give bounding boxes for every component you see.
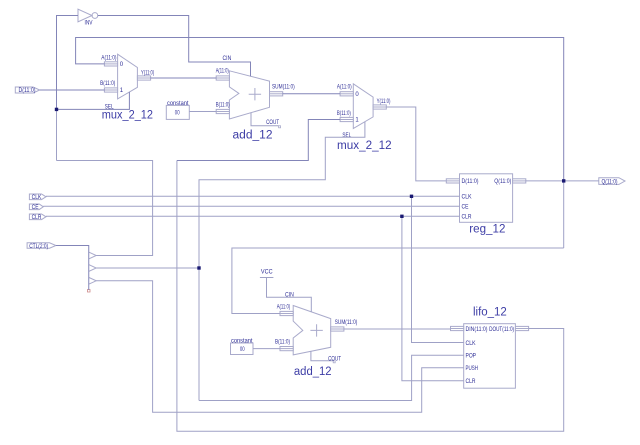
lifo U6 pin CLK — [466, 341, 476, 347]
lifo U6 pin DOUT(11:0) — [489, 326, 529, 333]
register U4 pin CLR — [462, 215, 473, 221]
wire Q feedback rail — [76, 38, 564, 249]
wire lifo DOUT feedback to mux U3 B — [177, 120, 564, 432]
svg-text:lifo_12: lifo_12 — [473, 306, 507, 318]
svg-text:PUSH: PUSH — [466, 366, 479, 372]
svg-text:A(11:0): A(11:0) — [101, 56, 116, 62]
register U4 pin Q(11:0) — [494, 179, 526, 185]
svg-text:CIN: CIN — [223, 56, 232, 62]
register U4 pin CLK — [462, 195, 472, 201]
adder U2 pin A(11:0) — [216, 68, 230, 80]
input port CLR — [29, 214, 46, 221]
svg-text:D(11:0): D(11:0) — [19, 88, 36, 94]
register U4 pin D(11:0) — [446, 179, 478, 185]
wire CLK rail — [46, 195, 460, 197]
lifo U6 pin DIN(11:0) — [451, 326, 488, 333]
wire constant C2 to adder U5 B — [253, 348, 280, 350]
wire INV input — [57, 16, 79, 161]
wire VCC to CIN — [267, 278, 312, 312]
wire adder U5 SUM to lifo DIN — [344, 328, 451, 330]
wire CLR rail — [46, 215, 460, 217]
mux U3 pin Y(11:0) — [373, 99, 390, 109]
input port D(11:0) — [15, 87, 39, 94]
svg-text:00: 00 — [175, 111, 180, 117]
adder U2 name label add_12 — [233, 129, 273, 141]
svg-text:A(11:0): A(11:0) — [277, 305, 291, 311]
svg-text:A(11:0): A(11:0) — [337, 84, 352, 90]
lifo U6 name label lifo_12 — [473, 306, 507, 318]
svg-text:B(11:0): B(11:0) — [275, 339, 290, 345]
mux U1 pin Y(11:0) — [137, 71, 154, 81]
wire D port to mux U1 B — [40, 89, 105, 91]
svg-text:CLK: CLK — [466, 341, 476, 347]
svg-text:Y(11:0): Y(11:0) — [377, 99, 391, 105]
bus tap T1 — [89, 252, 96, 259]
junction dot reg Q — [562, 179, 565, 182]
adder U5 add_12 body — [293, 306, 331, 355]
wire reg Q to port — [526, 180, 599, 182]
adder U5 pin CIN label — [285, 293, 294, 299]
svg-text:CLK: CLK — [32, 195, 42, 201]
svg-text:SEL: SEL — [342, 133, 351, 139]
svg-text:add_12: add_12 — [233, 129, 273, 141]
mux U3 pin B(11:0) — [337, 111, 360, 124]
svg-text:COUT: COUT — [328, 356, 341, 362]
svg-text:CE: CE — [32, 205, 39, 211]
wire tap T2 rail — [96, 267, 199, 269]
input port CLK — [29, 194, 46, 201]
svg-text:A(11:0): A(11:0) — [216, 68, 229, 74]
lifo U6 pin CLR — [466, 379, 477, 385]
svg-text:mux_2_12: mux_2_12 — [337, 140, 392, 152]
wire CLR branch to lifo — [402, 216, 464, 380]
adder U5 name label add_12 — [294, 366, 332, 378]
svg-text:DOUT(11:0): DOUT(11:0) — [489, 327, 514, 333]
svg-text:B(11:0): B(11:0) — [337, 111, 351, 117]
adder U5 pin A(11:0) — [277, 305, 294, 316]
mux U3 name label mux_2_12 — [337, 140, 392, 152]
bus tap T3 — [89, 278, 96, 285]
mux U1 mux_2_12 body — [118, 54, 138, 99]
register U4 name label reg_12 — [469, 223, 505, 235]
adder U2 pin B(11:0) — [216, 103, 230, 114]
svg-text:VCC: VCC — [261, 269, 273, 275]
mux U1 name label mux_2_12 — [102, 110, 153, 122]
open net marker — [88, 290, 91, 293]
svg-text:SUM(11:0): SUM(11:0) — [335, 320, 358, 326]
wire constant C1 to adder U2 B — [189, 111, 216, 113]
lifo U6 pin PUSH — [466, 366, 479, 372]
junction dot tap T2 net — [197, 266, 200, 269]
svg-text:D(11:0): D(11:0) — [462, 179, 479, 185]
mux U1 pin B(11:0) — [100, 81, 124, 94]
input port CTL(2:0) — [27, 243, 56, 250]
svg-text:CLK: CLK — [462, 195, 472, 201]
svg-text:Q(11:0): Q(11:0) — [494, 179, 511, 185]
wire CE rail — [43, 205, 459, 207]
wire tap T1 to rail — [57, 161, 153, 256]
wire INV output to CIN — [98, 16, 251, 77]
svg-text:B(11:0): B(11:0) — [216, 103, 230, 109]
svg-text:CLR: CLR — [462, 215, 473, 221]
wire Q to adder U5 A — [232, 248, 564, 314]
svg-text:CE: CE — [462, 205, 469, 211]
wire tap T3 to PUSH — [96, 281, 464, 413]
wire mux U1 SEL branch — [57, 92, 130, 110]
svg-text:mux_2_12: mux_2_12 — [102, 110, 153, 122]
adder U5 pin B(11:0) — [275, 339, 293, 350]
inverter INV — [78, 9, 98, 26]
svg-text:00: 00 — [240, 347, 245, 353]
wire mux U3 Y to reg U4 D — [386, 107, 446, 181]
adder U2 pin SUM(11:0) — [270, 85, 295, 96]
mux U3 mux_2_12 body — [353, 84, 373, 129]
mux U3 pin A(11:0) — [337, 84, 360, 98]
adder U2 pin COUT stub — [251, 113, 281, 128]
constant C2 block — [231, 338, 254, 354]
adder U2 add_12 body — [229, 71, 269, 119]
svg-text:B(11:0): B(11:0) — [100, 81, 115, 87]
svg-text:Q(11:0): Q(11:0) — [602, 179, 618, 185]
input port CE — [29, 204, 43, 211]
register U4 reg_12 body — [460, 174, 513, 223]
bus tap T2 — [89, 265, 96, 272]
mux U1 pin A(11:0) — [101, 56, 123, 69]
svg-text:CLR: CLR — [32, 215, 42, 221]
junction dot CLR branch — [400, 215, 403, 218]
constant C1 block — [166, 101, 189, 120]
wire adder U2 SUM to mux U3 A — [283, 93, 340, 95]
svg-text:CLR: CLR — [466, 379, 477, 385]
svg-text:CTL(2:0): CTL(2:0) — [29, 244, 48, 250]
wire POP rail — [199, 355, 464, 400]
adder U2 pin CIN label — [223, 56, 232, 62]
lifo U6 pin POP — [466, 354, 477, 360]
lifo U6 lifo_12 body — [464, 324, 516, 389]
output port Q(11:0) — [599, 178, 625, 186]
power symbol VCC — [260, 269, 274, 277]
svg-text:SUM(11:0): SUM(11:0) — [272, 85, 295, 91]
svg-text:add_12: add_12 — [294, 366, 332, 378]
wire mux U1 Y to adder U2 A — [151, 77, 217, 79]
svg-text:reg_12: reg_12 — [469, 223, 505, 235]
wire mux U3 SEL net — [199, 122, 365, 401]
svg-text:constant: constant — [167, 101, 189, 107]
svg-text:Y(11:0): Y(11:0) — [141, 71, 154, 77]
adder U5 pin COUT stub — [311, 351, 341, 363]
junction dot CLK branch — [410, 195, 413, 198]
wire CLK branch to lifo — [412, 196, 464, 342]
junction dot mux U1 SEL — [55, 108, 58, 111]
svg-text:POP: POP — [466, 354, 477, 360]
svg-text:DIN(11:0): DIN(11:0) — [466, 327, 488, 333]
svg-text:COUT: COUT — [266, 120, 279, 126]
svg-text:constant: constant — [231, 338, 253, 344]
adder U5 pin SUM(11:0) — [331, 320, 358, 331]
svg-text:INV: INV — [85, 21, 93, 27]
wire CTL port to taps — [56, 246, 89, 291]
mux U3 pin SEL — [342, 133, 351, 139]
register U4 pin CE — [462, 205, 469, 211]
mux U1 pin SEL — [105, 104, 114, 110]
